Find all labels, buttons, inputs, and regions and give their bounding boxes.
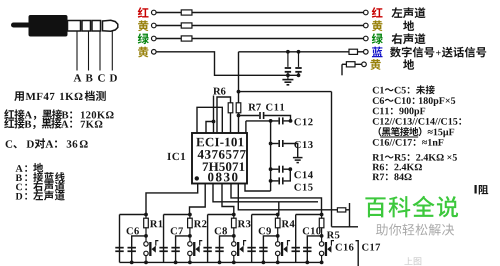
note C12-C15 parallel bbox=[373, 118, 379, 125]
plug ring segment C bbox=[92, 21, 101, 32]
capacitor C8 inner bbox=[215, 247, 223, 249]
note C6-C10 value bbox=[373, 97, 379, 104]
series resistor blue row bbox=[349, 49, 358, 54]
label C16 bbox=[336, 244, 342, 251]
capacitor C10 left bbox=[292, 247, 300, 249]
label A bbox=[74, 74, 82, 81]
pointer line D bbox=[111, 32, 113, 71]
label C8 bbox=[215, 227, 221, 234]
junction dot C12 right bbox=[289, 119, 293, 123]
label C9 bbox=[259, 227, 265, 234]
right terminal label 红 bbox=[372, 7, 383, 17]
wire C17 vertical bbox=[356, 241, 359, 266]
right terminal label 蓝 bbox=[372, 47, 383, 58]
faint caption bottom bbox=[404, 257, 412, 265]
wire R6b bottom to IC bbox=[238, 113, 240, 133]
jack contact top circle cell2 bbox=[189, 236, 191, 242]
resistor R4 bbox=[277, 215, 279, 219]
right label digital+mic signal bbox=[390, 47, 401, 58]
jack contact bottom circle cell1 bbox=[144, 251, 148, 255]
resistor R6a bbox=[228, 103, 233, 113]
partial label 阻 bbox=[475, 185, 477, 194]
junction dot cap rail top bbox=[269, 119, 273, 123]
label C15 bbox=[294, 184, 300, 191]
jack plug bar cell3 bbox=[237, 242, 239, 256]
capacitor C9 inner bbox=[259, 247, 267, 249]
wire hook horizontal to watermark bbox=[350, 226, 359, 228]
wire C12 right stub bbox=[284, 120, 291, 122]
terminal circle row5 bbox=[362, 62, 367, 67]
jack plug tip triangle cell3 bbox=[239, 246, 243, 253]
cell5 inner branch bbox=[307, 236, 321, 263]
terminal circle row1 left bbox=[152, 10, 157, 15]
right label 左声道 bbox=[392, 7, 403, 18]
junction dot ground rail at C-filter 2 bbox=[297, 73, 301, 77]
wire C15 row left bbox=[271, 180, 279, 182]
junction dot cell2 bottom inner bbox=[174, 261, 178, 265]
junction dot cell4 feed bbox=[276, 213, 280, 217]
wire C15 right to C14 node bbox=[284, 169, 291, 181]
note line 4: C D to A 36 ohm bbox=[6, 140, 13, 147]
series resistor row3 bbox=[181, 36, 192, 41]
wire C12 row from IC pin8 bbox=[245, 121, 247, 133]
junction dot cell4 mid bbox=[276, 234, 280, 238]
label D bbox=[110, 74, 117, 81]
label R7 bbox=[248, 104, 255, 111]
pin list D left channel bbox=[16, 193, 23, 200]
wire R6 vertical with junction bbox=[213, 96, 215, 134]
terminal circle row4 left bbox=[152, 50, 157, 55]
wire row1 right segment bbox=[192, 12, 364, 14]
label R6 bbox=[213, 88, 220, 95]
IC pin1 marker dot bbox=[195, 176, 199, 180]
jack stub cell4 bbox=[288, 241, 291, 246]
terminal circle row3 right bbox=[364, 36, 369, 41]
capacitor C15 bbox=[278, 177, 280, 184]
label C bbox=[98, 74, 105, 81]
junction dot cell4 bottom right bbox=[276, 261, 280, 265]
label C11 bbox=[266, 104, 272, 111]
right terminal label 黄 row5 bbox=[370, 59, 380, 70]
junction dot cell5 bottom inner bbox=[305, 261, 309, 265]
wire row3 right segment bbox=[192, 38, 364, 40]
junction dot cell1 bottom inner bbox=[130, 261, 134, 265]
capacitor C7 left bbox=[159, 247, 167, 249]
jack contact top circle cell1 bbox=[145, 236, 147, 242]
right terminal label 黄 bbox=[372, 20, 382, 31]
label R3 bbox=[238, 220, 245, 227]
jack contact bottom circle cell3 bbox=[232, 251, 236, 255]
capacitor C9 left bbox=[247, 247, 255, 249]
jack stub cell1 bbox=[156, 241, 159, 246]
junction dot C15 left bbox=[269, 179, 273, 183]
wire long horizontal to right rail bbox=[239, 91, 332, 93]
cell3 left vertical bbox=[207, 215, 209, 263]
terminal circle row1 right bbox=[364, 10, 369, 15]
label C14 bbox=[294, 171, 300, 178]
wire row5 hook from ground rail bbox=[342, 63, 346, 65]
junction dot ground rail at C-filter 1 bbox=[286, 73, 290, 77]
label R4 bbox=[282, 220, 289, 227]
right label 右声道 bbox=[392, 33, 403, 44]
series resistor row2 bbox=[181, 23, 192, 28]
cell1 top rail bbox=[120, 214, 147, 216]
junction dot cell3 bottom inner bbox=[218, 261, 222, 265]
junction dot cell3 feed bbox=[232, 213, 236, 217]
capacitor C11 bbox=[259, 112, 261, 119]
junction dot C14 left bbox=[269, 167, 273, 171]
cell2 inner branch bbox=[176, 236, 190, 263]
terminal circle row3 left bbox=[152, 36, 157, 41]
pointer line A bbox=[76, 32, 78, 71]
jack plug bar cell5 bbox=[325, 242, 327, 256]
jack plug tip triangle cell5 bbox=[327, 246, 331, 253]
jack plug tip triangle cell2 bbox=[195, 246, 199, 253]
wire C14 row left bbox=[271, 168, 279, 170]
right terminal label 绿 bbox=[372, 33, 383, 44]
capacitor C13 bbox=[278, 140, 280, 147]
label C17 bbox=[362, 244, 368, 251]
wire row2 right segment bbox=[192, 25, 364, 27]
wire IC pin4 to R6a top bbox=[217, 97, 231, 133]
capacitor C6 left bbox=[115, 247, 123, 249]
note C11 value bbox=[373, 108, 379, 115]
cell5 top rail bbox=[296, 214, 322, 216]
cell5 left vertical bbox=[295, 215, 297, 263]
op-amp IC1 ECI-101 box bbox=[192, 133, 247, 184]
ground bus bottom bbox=[120, 261, 324, 263]
jack plug bar cell4 bbox=[281, 242, 283, 256]
cell1 inner branch bbox=[132, 236, 146, 263]
watermark 百科全说 bbox=[365, 197, 385, 217]
resistor R1 bbox=[145, 215, 147, 219]
junction dot cell5 mid bbox=[320, 234, 324, 238]
pointer line B bbox=[88, 32, 90, 71]
note R1-R5 value bbox=[372, 154, 379, 161]
pin list C right channel bbox=[16, 184, 22, 191]
jack stub cell3 bbox=[244, 241, 247, 246]
junction dot R6 vertical bbox=[212, 120, 216, 124]
note line 3: red B black A 7K bbox=[4, 118, 14, 128]
junction dot cell1 bottom right bbox=[144, 261, 148, 265]
wire rail bottom corner bbox=[332, 226, 350, 228]
wire blue net horizontal bbox=[239, 51, 350, 53]
wire resistor to hook bbox=[346, 209, 350, 211]
plug ring segment A bbox=[68, 21, 81, 32]
label B bbox=[86, 74, 93, 81]
label C6 bbox=[127, 227, 133, 234]
IC text 7H5071 bbox=[203, 162, 208, 170]
capacitor C10 inner bbox=[303, 247, 311, 249]
junction dot blue net 1 bbox=[286, 50, 290, 54]
capacitor C6 inner bbox=[128, 247, 136, 249]
left terminal label 绿 bbox=[138, 33, 149, 44]
jack plug bar cell1 bbox=[149, 242, 151, 256]
terminal circle row2 left bbox=[152, 23, 157, 28]
junction dot cell2 bottom right bbox=[188, 261, 192, 265]
jack contact bottom circle cell4 bbox=[276, 251, 280, 255]
pin list A ground bbox=[16, 165, 23, 172]
junction dot C14 right bbox=[288, 167, 292, 171]
plug ring segment B bbox=[82, 21, 91, 32]
junction dot cell2 mid bbox=[188, 234, 192, 238]
label C13 bbox=[294, 141, 300, 148]
wire blue row to terminal bbox=[358, 51, 364, 53]
jack stub cell5 bbox=[331, 241, 334, 246]
resistor R3 bbox=[233, 215, 235, 219]
cell3 top rail bbox=[208, 214, 234, 216]
wire hook vertical bbox=[349, 203, 351, 227]
wire C11 right to C12 node bbox=[264, 116, 290, 121]
label R1 bbox=[150, 220, 157, 227]
wire C11 left bbox=[239, 115, 260, 117]
junction dot cell2 feed bbox=[188, 213, 192, 217]
wire bus pin to cell4 bbox=[213, 184, 318, 202]
resistor R5 bbox=[321, 215, 323, 219]
label IC1 bbox=[167, 153, 171, 160]
series resistor row1 bbox=[181, 10, 192, 15]
jack contact bottom circle cell2 bbox=[188, 251, 192, 255]
series resistor row5 bbox=[346, 62, 355, 67]
left terminal label 黄 row4 bbox=[138, 47, 148, 58]
capacitor C7 inner bbox=[171, 247, 179, 249]
watermark subtitle 助你轻松解决 bbox=[376, 224, 388, 236]
resistor R output horizontal bbox=[337, 208, 345, 212]
wire bus pin to cell5 bbox=[231, 184, 322, 215]
junction dot blue vertical bbox=[237, 90, 241, 94]
label C7 bbox=[171, 227, 177, 234]
IC text ECI-101 bbox=[196, 138, 204, 146]
note C1-C5 unconnected bbox=[373, 87, 379, 94]
wire cap rail vertical bbox=[270, 121, 272, 191]
wire row4: right then down to ground rail bbox=[156, 52, 299, 76]
cell4 inner branch bbox=[263, 236, 277, 263]
label R2 bbox=[194, 220, 201, 227]
wire R6a bottom to IC bbox=[230, 113, 232, 133]
left terminal label 红 bbox=[138, 7, 149, 17]
wire C13 row left bbox=[271, 143, 279, 145]
jack stub cell2 bbox=[200, 241, 203, 246]
note black pen ground 15uF bbox=[379, 127, 382, 136]
right label 地 bbox=[403, 20, 414, 31]
cell3 inner branch bbox=[220, 236, 234, 263]
cell2 left vertical bbox=[163, 215, 165, 263]
junction dot cell5 feed bbox=[320, 213, 324, 217]
junction dot cell4 bottom inner bbox=[262, 261, 266, 265]
note line 2: red A black B 120K bbox=[4, 109, 14, 119]
wire C13 right to ground bbox=[284, 144, 298, 158]
label R5 bbox=[327, 231, 334, 238]
wire IC pin2 loop bbox=[206, 122, 214, 134]
junction dot cell3 mid bbox=[232, 234, 236, 238]
left terminal label 黄 bbox=[138, 20, 148, 31]
plug tip segment D bbox=[103, 20, 118, 31]
IC text 0830 bbox=[208, 173, 213, 182]
jack contact top circle cell3 bbox=[233, 236, 235, 242]
pin list B blue wire bbox=[16, 175, 22, 182]
junction dot cell3 bottom right bbox=[232, 261, 236, 265]
3.5mm plug cable stem bbox=[11, 23, 31, 28]
terminal circle blue row bbox=[364, 50, 369, 55]
note R7 value bbox=[372, 174, 379, 181]
wire row1 left segment bbox=[156, 12, 181, 14]
jack contact top circle cell4 bbox=[277, 236, 279, 242]
IC text 4376577 bbox=[198, 150, 204, 159]
right label 地 row5 bbox=[403, 59, 414, 70]
wire IC pin1-pin5 U loop bbox=[197, 107, 222, 133]
wire bus pin to cell2 bbox=[190, 184, 206, 215]
wire bus pin to cell3 bbox=[222, 184, 234, 215]
junction dot cell1 mid bbox=[144, 234, 148, 238]
wire row3 left segment bbox=[156, 38, 181, 40]
wire cap rail bottom to IC pin bbox=[245, 184, 271, 192]
terminal circle row2 right bbox=[364, 23, 369, 28]
capacitor filter C right bbox=[298, 52, 300, 67]
jack contact top circle cell5 bbox=[321, 236, 323, 242]
label C10 bbox=[303, 227, 309, 234]
cell4 left vertical bbox=[251, 215, 253, 263]
wire bus pin to output resistor bbox=[238, 184, 337, 210]
junction dot cell1 feed bbox=[144, 213, 148, 217]
wire blue net vertical to IC area bbox=[238, 52, 240, 103]
label C12 bbox=[294, 118, 300, 125]
junction dot C11 node bbox=[237, 114, 241, 118]
note line 1: meter setting bbox=[14, 91, 24, 101]
junction dot blue net 2 bbox=[297, 50, 301, 54]
resistor R2 bbox=[189, 215, 191, 219]
pointer line C bbox=[99, 32, 101, 71]
junction dot C13 left bbox=[269, 142, 273, 146]
jack plug tip triangle cell1 bbox=[152, 246, 156, 253]
capacitor C12 bbox=[278, 117, 280, 124]
resistor R6b bbox=[236, 103, 241, 113]
junction dot cell5 bottom right bbox=[320, 261, 324, 265]
ground symbol C13 bbox=[293, 157, 303, 159]
jack contact bottom circle cell5 bbox=[319, 251, 323, 255]
wire row2 left segment bbox=[156, 25, 181, 27]
note C16 C17 value bbox=[373, 139, 379, 146]
wire C14 right stub bbox=[284, 168, 291, 170]
wire row5 to terminal bbox=[355, 63, 362, 65]
capacitor C8 left bbox=[203, 247, 211, 249]
cell2 top rail bbox=[164, 214, 190, 216]
wire bus pin to cell1 bbox=[146, 184, 198, 215]
capacitor C14 bbox=[278, 166, 280, 173]
capacitor filter C left bbox=[287, 52, 289, 67]
jack plug bar cell2 bbox=[193, 242, 195, 256]
jack plug tip triangle cell4 bbox=[283, 246, 287, 253]
ground symbol below ground rail bbox=[287, 75, 289, 79]
note R6 value bbox=[372, 164, 379, 171]
cell4 top rail bbox=[252, 214, 278, 216]
wire right rail vertical bbox=[331, 92, 333, 227]
cell1 left vertical bbox=[119, 215, 121, 263]
3.5mm plug body bbox=[29, 15, 68, 37]
